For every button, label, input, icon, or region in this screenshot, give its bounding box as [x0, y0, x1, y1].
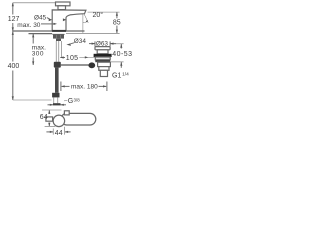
- stud: [56, 39, 61, 41]
- drain tail wide tube: [98, 62, 111, 66]
- 20deg arc: [83, 21, 88, 23]
- arrow max30: [54, 23, 57, 25]
- svg-text:300: 300: [32, 50, 44, 57]
- plan handle rect: [46, 117, 53, 121]
- drain dark band 2: [95, 60, 110, 62]
- arrow 44 left: [50, 131, 53, 133]
- drain black band: [94, 54, 112, 57]
- 20deg vertical ref line: [82, 14, 84, 33]
- arrow dia45 left: [49, 18, 53, 21]
- hose line 3: [61, 41, 63, 57]
- dim max300 line top: [32, 34, 34, 44]
- counter top line right: [66, 30, 85, 32]
- plan spout stadium: [61, 113, 96, 125]
- arrow G38 left: [50, 104, 53, 106]
- arrow 44 right: [65, 131, 68, 133]
- svg-text:44: 44: [55, 130, 63, 137]
- drain flange: [95, 47, 110, 50]
- hose end fitting: [53, 103, 61, 105]
- faucet base dark band: [52, 30, 66, 32]
- dia63 arrow line right: [110, 43, 116, 45]
- dim 44 line left: [46, 131, 53, 133]
- svg-text:105: 105: [66, 55, 79, 62]
- dim 64 line bottom: [48, 123, 50, 127]
- mounting nut: [53, 35, 64, 39]
- dim 64 line top: [48, 110, 50, 114]
- pop-up rod clamp: [54, 62, 61, 68]
- svg-text:85: 85: [113, 19, 121, 26]
- arrow max300 bottom: [32, 61, 34, 65]
- svg-text:Ø63: Ø63: [96, 40, 109, 47]
- dim 127 line: [12, 3, 14, 15]
- label 127: [7, 15, 20, 23]
- arrow max180 right: [103, 85, 106, 87]
- arrow 400 bottom: [12, 96, 14, 100]
- dim 40-53 arrow line top: [120, 44, 122, 49]
- dim max300 line bottom: [32, 57, 34, 65]
- 44 extension right: [64, 127, 66, 135]
- hose tail line 1: [53, 97, 55, 103]
- drain tail tube: [100, 70, 107, 76]
- hose line 2: [58, 41, 60, 62]
- dia34 leader: [71, 43, 75, 44]
- arrow 127 top: [12, 3, 14, 7]
- svg-text:Ø45: Ø45: [34, 14, 47, 21]
- arrow 400 top: [12, 31, 14, 35]
- arrow 85 top: [116, 12, 118, 16]
- svg-text:400: 400: [8, 63, 20, 70]
- arrow 105 right: [85, 56, 88, 58]
- arrow 85 bottom: [116, 30, 118, 34]
- svg-text:20°: 20°: [93, 11, 104, 19]
- counter top line left: [12, 30, 52, 32]
- dim 85 line: [116, 12, 118, 18]
- 20deg stream line: [84, 14, 88, 23]
- plan small top box: [64, 111, 69, 115]
- svg-text:max. 180: max. 180: [71, 84, 98, 91]
- drain mid band: [95, 57, 110, 60]
- dim 105 line: [60, 57, 65, 59]
- dim 44 line right: [65, 131, 71, 133]
- arrow dia63 right: [110, 43, 113, 45]
- dim 127 extension top: [13, 2, 56, 4]
- plan view extension line top: [42, 109, 62, 111]
- dim 40-53 extension top: [111, 43, 123, 45]
- flexible hose dark bar: [55, 68, 59, 93]
- plan body circle: [53, 115, 65, 127]
- dim 40-53 arrow line bottom: [120, 62, 122, 68]
- G38 dim line right: [61, 104, 67, 106]
- arrow G38 right: [60, 104, 63, 106]
- counter bottom line right: [66, 32, 120, 34]
- svg-text:40-53: 40-53: [112, 51, 132, 58]
- dim 40-53 extension bottom: [111, 61, 124, 63]
- dim 400 line: [12, 31, 14, 61]
- washer: [53, 33, 65, 36]
- counter bottom line left: [29, 33, 53, 35]
- arrow 40-53 top: [120, 44, 122, 48]
- dim max180 tick left: [60, 82, 62, 92]
- dia45 leader: [47, 18, 50, 19]
- dim max180 line right: [99, 85, 107, 87]
- arrow dia34: [66, 43, 71, 46]
- arrow 127 bottom: [12, 27, 14, 31]
- pop-up horizontal rod: [61, 64, 89, 66]
- arrow dia45 right: [63, 18, 66, 21]
- faucet lever bar: [56, 2, 71, 6]
- dia63 arrow line left: [89, 43, 95, 45]
- hose line 1: [55, 41, 57, 62]
- 44 extension left: [52, 129, 54, 135]
- arrow dia63 left: [92, 43, 95, 45]
- dia63 tick right: [109, 41, 111, 46]
- svg-text:64: 64: [40, 114, 48, 121]
- hose tail line 2: [57, 97, 59, 103]
- label 400: [7, 62, 21, 70]
- drain coupling band: [99, 67, 109, 71]
- faucet lever neck: [58, 6, 66, 10]
- arrow 64 top: [48, 110, 50, 114]
- max30 leader: [41, 23, 54, 25]
- dim max180 tick right: [106, 82, 108, 92]
- dim max180 line left: [62, 85, 70, 87]
- ball joint: [88, 62, 95, 68]
- hose nut: [52, 93, 59, 98]
- arrow 20deg arc: [86, 20, 88, 23]
- arrow 64 bottom: [48, 123, 50, 127]
- svg-text:max. 30: max. 30: [17, 22, 41, 29]
- arrow max180 left: [61, 85, 64, 87]
- plan extension line bottom: [45, 125, 56, 127]
- G38 leader: [64, 99, 67, 102]
- arrow max300 top: [32, 34, 34, 38]
- arrow 40-53 bottom: [120, 62, 122, 66]
- dim 400 extension bottom: [13, 99, 52, 101]
- G38 dim line left: [48, 104, 54, 106]
- arrow 105 left: [60, 56, 63, 58]
- svg-text:Ø34: Ø34: [74, 38, 87, 45]
- dia63 tick left: [94, 41, 96, 46]
- dim 85 extension top: [88, 11, 120, 13]
- faucet body and spout outline: [52, 10, 86, 31]
- drain neck: [97, 50, 108, 54]
